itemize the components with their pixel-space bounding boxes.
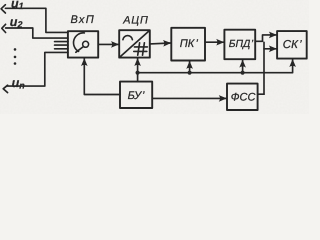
svg-text:БУ’: БУ’ xyxy=(128,90,145,102)
wire BPD output stub xyxy=(255,40,262,42)
arrow VhP to ACP xyxy=(98,43,118,45)
wire FSS to riser xyxy=(258,93,264,95)
wire FSS riser vertical xyxy=(263,42,265,94)
switch symbol arc in VhP xyxy=(74,33,85,52)
ACP digital hash symbol xyxy=(134,43,148,55)
wire u2 to VhP xyxy=(6,28,68,38)
arrow ACP to PK xyxy=(150,42,171,45)
svg-text:АЦП: АЦП xyxy=(122,14,148,26)
block FSS box xyxy=(227,84,258,110)
svg-text:СК’: СК’ xyxy=(283,39,302,51)
block ACP box xyxy=(119,30,150,57)
switch symbol wiper circle xyxy=(83,41,89,47)
svg-text:u1: u1 xyxy=(11,0,24,11)
stub wire channel 3 xyxy=(55,41,68,43)
ACP analog arc symbol xyxy=(123,36,132,40)
wire u1 to VhP xyxy=(5,8,68,32)
svg-text:БПД’: БПД’ xyxy=(229,39,254,50)
arrow BU to FSS xyxy=(152,97,226,99)
wire BU left and arrow up into VhP bottom xyxy=(84,59,120,95)
svg-text:ВхП: ВхП xyxy=(71,14,96,26)
switch symbol wiper arm xyxy=(76,47,84,53)
wire and arrow BPD upper into SK xyxy=(263,35,277,41)
block BU box xyxy=(120,82,152,108)
block VhP box xyxy=(68,31,98,57)
block SK box xyxy=(277,31,307,58)
block PK box xyxy=(171,28,205,61)
junction dot at BU riser xyxy=(136,71,140,75)
wire BU top arrow into ACP bottom xyxy=(137,58,139,81)
ellipsis dot 1 xyxy=(14,48,17,51)
ellipsis dot 2 xyxy=(14,56,17,59)
input terminal u2 xyxy=(2,24,6,32)
bus from BU riser to SK bottom xyxy=(138,59,293,72)
branch arrow into BPD bottom xyxy=(242,60,244,73)
ACP diagonal xyxy=(120,31,149,57)
arrow lower into SK xyxy=(264,48,277,50)
input terminal u1 xyxy=(1,5,5,13)
junction dot at PK branch xyxy=(188,71,192,75)
svg-text:ПК’: ПК’ xyxy=(180,38,199,50)
branch arrow into PK bottom xyxy=(189,61,191,72)
stub wire channel 5 xyxy=(55,48,68,50)
svg-text:ФСС: ФСС xyxy=(231,92,256,104)
junction dot at BPD branch xyxy=(241,71,245,75)
stub wire channel 4 xyxy=(55,44,68,46)
ellipsis dot 3 xyxy=(14,62,17,65)
input terminal un xyxy=(3,85,7,92)
wire un to VhP xyxy=(7,52,68,86)
arrow PK to BPD xyxy=(205,41,224,43)
block BPD box xyxy=(224,30,255,60)
